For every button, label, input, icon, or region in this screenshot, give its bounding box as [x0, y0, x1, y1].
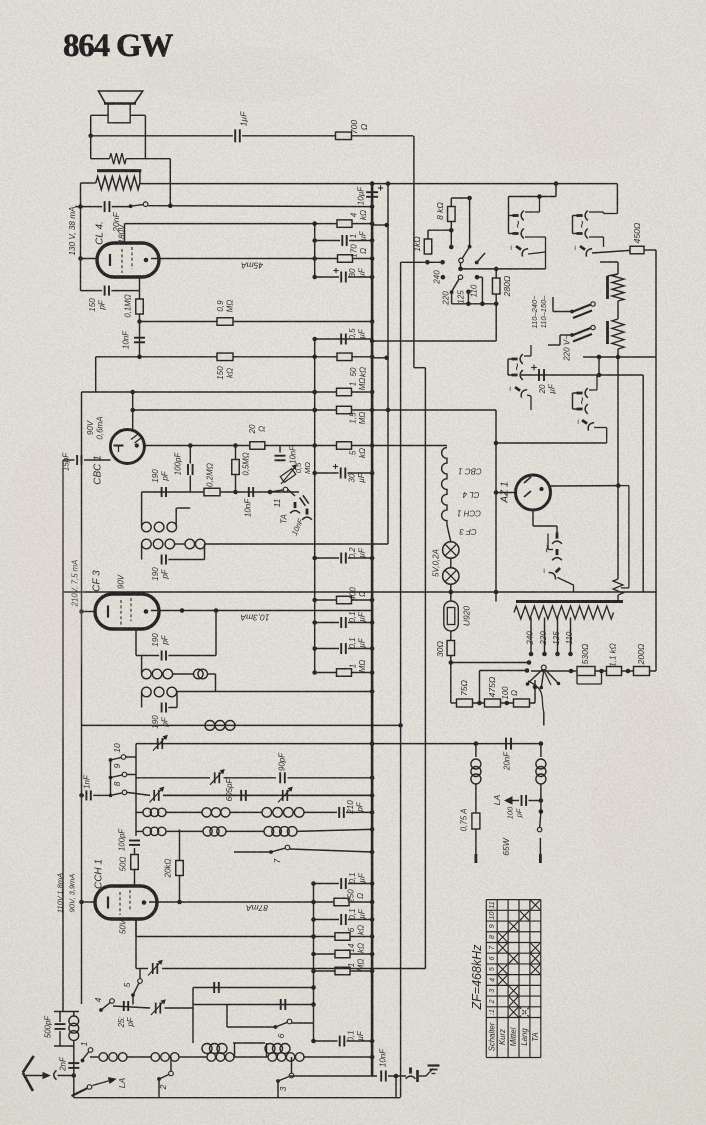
wire 100pc right — [529, 800, 541, 802]
plus mark 10µF — [378, 187, 383, 189]
junction — [466, 302, 471, 307]
junction — [440, 260, 445, 265]
wire 500p bot — [54, 1045, 74, 1047]
junction — [554, 181, 559, 186]
dropper bar1 — [606, 276, 609, 299]
junction — [370, 355, 375, 360]
junction — [466, 290, 471, 295]
wire tr3 left — [163, 794, 278, 796]
wire y375 row — [521, 374, 576, 376]
wire left rail top — [80, 183, 82, 291]
capacitor 20nF mains — [104, 201, 106, 212]
resistor 1kΩ — [424, 239, 432, 254]
wire corner down — [413, 136, 415, 262]
wire 250 right — [349, 901, 372, 903]
resistor 0.5MΩ — [232, 460, 240, 475]
wire 0.1µF c right — [348, 883, 372, 885]
capacitor 1µF — [234, 129, 236, 142]
resistor 0.1MΩ — [136, 299, 144, 314]
lamp dial 2 — [443, 568, 459, 584]
wire fil3 bracket — [572, 393, 574, 409]
wire tap 110 — [570, 618, 572, 654]
wire 0.1µF a right — [348, 622, 372, 624]
wire primary left — [81, 182, 96, 184]
wire speaker loop right — [144, 115, 146, 158]
trimmer fe1 — [152, 963, 154, 974]
wire tap 125 — [557, 618, 559, 654]
wire CBC1 anode — [145, 445, 250, 447]
wire tr fe1 left — [136, 968, 148, 970]
wire AZ1 anode — [551, 485, 619, 487]
coil osc A3 — [262, 808, 272, 818]
junction — [370, 810, 375, 815]
wire 100p vert — [189, 446, 191, 464]
wire CF3 anode — [151, 610, 372, 612]
wire coilB left — [136, 830, 143, 832]
junction — [370, 741, 375, 746]
lamp dial 1 — [443, 542, 459, 558]
junction — [555, 652, 560, 657]
junction — [539, 809, 544, 814]
wire y1076 — [290, 1075, 377, 1077]
wire y341 — [372, 340, 496, 342]
wire loop up — [215, 611, 217, 656]
wire coil link1 — [234, 1043, 236, 1057]
coil osc A1 — [143, 808, 151, 816]
wire 8k wire — [451, 197, 469, 199]
junction — [233, 443, 238, 448]
plus mark 30µFb — [333, 466, 338, 468]
wire CL4 screen up — [124, 224, 126, 243]
wire LVc out — [592, 250, 630, 253]
wire chokeA down — [475, 784, 477, 813]
wire CL4 cathode left — [81, 258, 98, 260]
wire IF2 sec right — [176, 692, 178, 708]
wire CCH1 g1 down — [135, 919, 137, 943]
switch 2 — [157, 1077, 161, 1081]
wire IF1 sec mid — [175, 543, 185, 545]
junction — [529, 652, 534, 657]
junction — [370, 827, 375, 832]
wire ant to node — [58, 1075, 74, 1077]
dropper zigzag1 — [612, 274, 624, 301]
wire 1k link — [428, 229, 451, 231]
wire AZ1 bottom2 — [533, 525, 557, 527]
switch 11 — [268, 490, 272, 494]
coil IF2 primary a — [142, 669, 152, 679]
wire 0.9M row — [140, 321, 373, 323]
wire 700 to corner — [352, 135, 414, 137]
wire 90p right — [288, 777, 373, 779]
wire vert x388 — [387, 184, 389, 410]
capacitor 0.1µF c — [340, 878, 342, 889]
junction — [312, 390, 317, 395]
resistor 14kΩ — [335, 950, 350, 958]
wire speaker loop top-left — [91, 114, 108, 116]
wire HV top — [509, 196, 557, 198]
junction — [370, 969, 375, 974]
resistor 1MΩ c — [335, 967, 350, 975]
wire fil2 stub b — [508, 374, 513, 376]
wire sw9 right — [127, 774, 136, 776]
wire 190c left — [136, 655, 159, 657]
wire 450 right — [644, 249, 656, 251]
capacitor 25pF — [123, 1001, 125, 1011]
wire 0.1µF d row — [314, 919, 340, 921]
fuse 0.75A — [472, 813, 480, 829]
capacitor 15pF — [76, 455, 78, 465]
wire 210p right — [346, 811, 372, 813]
junction — [449, 245, 454, 250]
wire x599 down — [598, 357, 600, 375]
capacitor 210pF — [338, 807, 340, 818]
resistor 530Ω — [577, 667, 595, 676]
wire HV cup a — [525, 211, 540, 213]
capacitor 0.5µF — [340, 334, 342, 345]
capacitor 190pF c — [161, 651, 163, 661]
wire sw6 right — [292, 1022, 314, 1024]
table X marks — [498, 932, 507, 942]
junction — [312, 221, 317, 226]
junction — [477, 701, 482, 706]
wire fuseA down — [475, 829, 477, 854]
wire 20R right — [265, 445, 336, 447]
socket fil3 c — [579, 416, 594, 431]
socket LV c — [577, 242, 592, 257]
wire tr2 right — [224, 777, 277, 779]
junction — [616, 355, 621, 360]
junction — [370, 598, 375, 603]
wire 530 bypass — [576, 676, 578, 685]
wire y691 — [177, 691, 372, 693]
junction — [370, 1039, 375, 1044]
resistor 4kΩ — [337, 220, 352, 228]
bus main vertical — [371, 184, 374, 1076]
wire anode top — [91, 135, 233, 137]
switch 8 — [109, 794, 113, 798]
wire 100R up2 — [534, 680, 536, 687]
wire IF1 sec right — [204, 544, 206, 560]
wire drop1 top — [617, 262, 619, 274]
junction — [386, 181, 391, 186]
wire CL4 anode — [151, 258, 338, 260]
wire antB j4 — [304, 1056, 372, 1058]
capacitor 0.1µF d — [340, 914, 342, 925]
wire sel220 link2 — [560, 334, 572, 336]
wire vert x643 — [642, 375, 644, 592]
wire g1 col — [135, 943, 137, 969]
socket fil2 a — [512, 354, 523, 364]
junction — [449, 228, 454, 233]
wire speaker loop left — [90, 115, 92, 158]
junction — [311, 952, 316, 957]
junction — [370, 443, 375, 448]
junction — [370, 471, 375, 476]
junction — [385, 223, 390, 228]
wire coilv b — [73, 1041, 75, 1046]
capacitor 150pF — [104, 286, 106, 296]
wire coilA join1 — [166, 811, 202, 813]
wire 30µF row — [315, 276, 339, 278]
wire sel row2 down — [479, 671, 481, 704]
junction — [386, 408, 391, 413]
junction — [527, 660, 532, 665]
junction — [480, 302, 485, 307]
wire sel220 col2 — [559, 335, 561, 345]
wire coilA left — [136, 811, 143, 813]
capacitor 20nF b — [505, 738, 507, 750]
switch 5 — [131, 993, 135, 997]
switch 220V — [573, 304, 592, 312]
wire 125 down — [467, 292, 469, 304]
wire 0.2µF row — [315, 557, 339, 559]
junction — [494, 441, 499, 446]
wire pot vert — [279, 446, 281, 453]
wire coilB join1 — [166, 830, 203, 832]
socket AZ1 fil c — [549, 565, 564, 580]
wire B+ lead — [139, 172, 141, 183]
wire heater to lamp — [447, 525, 451, 542]
junction — [137, 355, 142, 360]
wire sel220 link — [553, 311, 572, 313]
resistor hum-coil — [110, 153, 127, 164]
wire sw6 left — [227, 1026, 276, 1028]
wire 100p-50R — [134, 848, 136, 854]
capacitor 10nF — [134, 337, 145, 339]
wire AZ1 bottom — [532, 510, 534, 526]
junction — [311, 1039, 316, 1044]
coil RF choke A — [471, 759, 481, 769]
arrow LA b — [505, 797, 512, 804]
junction — [168, 203, 173, 208]
socket TA upper — [290, 502, 300, 513]
wire sw11 to TA — [288, 490, 295, 497]
junction — [312, 337, 317, 342]
wire sel220 col — [552, 297, 554, 312]
coil osc B1 — [143, 827, 151, 835]
switch mains — [129, 204, 133, 208]
trimmer osc2 — [214, 772, 216, 783]
wire CF3 g2 down — [135, 629, 137, 656]
junction — [370, 221, 375, 226]
wire antB j1 — [127, 1056, 151, 1058]
resistor 1.1kΩ — [607, 667, 622, 676]
wire 8k stub — [450, 222, 452, 247]
wire fe2 row — [113, 1006, 150, 1008]
wire rail x81 — [81, 392, 83, 1004]
wire 30R down — [450, 656, 452, 663]
wire anode top right — [242, 135, 336, 137]
junction — [370, 339, 375, 344]
wire 20k bot — [179, 876, 181, 903]
wire 50k ext — [372, 357, 387, 359]
socket HV c — [513, 242, 528, 257]
wire 500p top — [54, 1011, 79, 1013]
wire sel row268 — [461, 268, 546, 270]
wire y1004 — [193, 1004, 314, 1006]
wire 0.1µF b right — [348, 648, 372, 650]
wire fil3c out — [594, 427, 607, 429]
wire IF2 prim right v — [215, 674, 217, 692]
wire sw8 right — [127, 792, 150, 795]
junction — [268, 490, 273, 495]
wire sw3 circle up — [291, 1057, 293, 1073]
wire 500p tl — [59, 1012, 61, 1023]
plus mark 20µF — [531, 367, 537, 369]
wire LV stub a — [573, 215, 578, 217]
junction — [311, 985, 316, 990]
wire 280 bot — [495, 294, 497, 304]
junction — [312, 408, 317, 413]
wire coilA join2 — [230, 811, 262, 813]
junction — [311, 969, 316, 974]
resistor 475Ω — [485, 699, 501, 707]
wire CF3 cath — [82, 611, 96, 613]
wire HV bracket — [508, 197, 510, 234]
wire AZ1 fil stub — [556, 526, 558, 534]
resistor 250Ω — [334, 898, 349, 906]
junction — [505, 701, 510, 706]
wire 1MΩb right — [352, 672, 373, 674]
junction — [79, 609, 84, 614]
wire AZ1 bypass — [618, 485, 629, 487]
wire y592 long — [63, 591, 656, 593]
resistor 100Ω — [514, 699, 530, 707]
coil ant A1 — [202, 1044, 212, 1054]
junction — [569, 669, 574, 674]
wire sel row2 — [480, 670, 528, 672]
capacitor 190pF d — [161, 703, 163, 713]
wire fil2 stub a — [508, 358, 513, 360]
wire y410 — [133, 409, 496, 411]
junction — [312, 256, 317, 261]
socket HV a — [513, 211, 524, 221]
wire 400Ω right — [352, 599, 373, 601]
junction — [494, 590, 499, 595]
wire fil2a out — [524, 355, 531, 357]
wire 110 down — [481, 277, 483, 304]
socket fil2 c — [512, 383, 527, 398]
wire 170 right — [353, 258, 373, 260]
wire 0.1µF c row — [314, 883, 340, 885]
wire gnd right — [388, 1075, 406, 1077]
junction — [370, 741, 375, 746]
junction — [177, 900, 182, 905]
wire sw10 right — [126, 756, 136, 758]
junction — [312, 620, 317, 625]
coil ant A2 — [265, 1044, 275, 1054]
wire y443 right — [496, 442, 607, 444]
junction — [458, 267, 463, 272]
junction — [494, 302, 499, 307]
wire chokeB down — [540, 784, 542, 801]
ground symbol — [426, 1069, 433, 1077]
wire fil3 stub b — [573, 408, 578, 410]
coil osc B3 — [264, 827, 274, 837]
junction — [542, 652, 547, 657]
socket fil3 a — [577, 388, 588, 398]
wire IF1 top right — [177, 507, 191, 509]
capacitor 30µF — [340, 272, 342, 283]
junction — [394, 1074, 399, 1079]
socket fil2 b — [512, 370, 523, 380]
wire antB left — [90, 1056, 99, 1058]
wire LV bracket — [572, 216, 574, 234]
wire x496 col — [495, 410, 497, 602]
junction — [425, 260, 430, 265]
wire drop top right — [600, 261, 618, 263]
coil IF1 primary — [142, 522, 152, 532]
wire coil link2 — [266, 1043, 268, 1057]
capacitor 190pF b — [161, 555, 163, 565]
resistor 0.9MΩ — [217, 318, 233, 326]
resistor 30Ω — [447, 641, 455, 656]
wire 0.5µF row — [315, 338, 372, 340]
coil ant input — [69, 1016, 79, 1026]
wire sw2 circle up — [170, 1057, 172, 1071]
junction — [370, 238, 375, 243]
wire x396 down — [395, 1076, 397, 1097]
wire y357 pow — [583, 356, 656, 358]
wire cordB down — [540, 744, 542, 757]
junction — [597, 355, 602, 360]
wire 1M c right — [350, 970, 372, 972]
junction — [311, 934, 316, 939]
wire antB j3 — [234, 1056, 268, 1058]
resistor 50kΩ — [337, 353, 352, 361]
potentiometer 0.5MΩ — [280, 469, 295, 483]
wire sel 268 — [460, 263, 462, 269]
wire IF2 prim right — [208, 673, 216, 675]
junction — [370, 204, 375, 209]
junction — [494, 267, 499, 272]
wire x556 down — [555, 184, 557, 197]
capacitor 1µF bus — [341, 235, 343, 246]
wire y544 to right — [205, 543, 389, 545]
wire switch line left — [75, 206, 102, 208]
wire 30µF right — [348, 276, 372, 278]
capacitor 0.1µF a — [340, 617, 342, 628]
dropper zigzag2 — [612, 319, 624, 349]
switch 3 — [276, 1079, 280, 1083]
cord tip A — [474, 854, 477, 863]
socket LV a — [577, 211, 588, 221]
wire CCH1 osc grid — [135, 919, 137, 937]
wire 15p right — [84, 459, 111, 461]
socket fil3 b — [577, 404, 588, 414]
switch sel a — [468, 245, 472, 249]
wire node down — [169, 159, 171, 206]
wire y968 right — [162, 968, 426, 970]
resistor 280Ω — [492, 278, 500, 294]
wire IF2 prim left — [141, 656, 143, 675]
wire 190c right — [168, 655, 216, 657]
junction — [370, 917, 375, 922]
wire 0.1µF row a — [315, 622, 339, 624]
wire sw2 pivot down — [158, 1079, 160, 1098]
wire 30µF2 right — [348, 472, 373, 474]
selector lever c — [477, 253, 485, 263]
trimmer fe2 — [155, 1003, 157, 1014]
junction — [312, 670, 317, 675]
wire IF2 prim mid — [173, 673, 194, 675]
wire tapres row — [531, 670, 656, 672]
wire 280 down — [495, 304, 497, 341]
junction — [312, 355, 317, 360]
wire fil3 stub a — [573, 392, 578, 394]
switch 10 — [109, 758, 113, 762]
wire 100R up — [534, 687, 536, 703]
